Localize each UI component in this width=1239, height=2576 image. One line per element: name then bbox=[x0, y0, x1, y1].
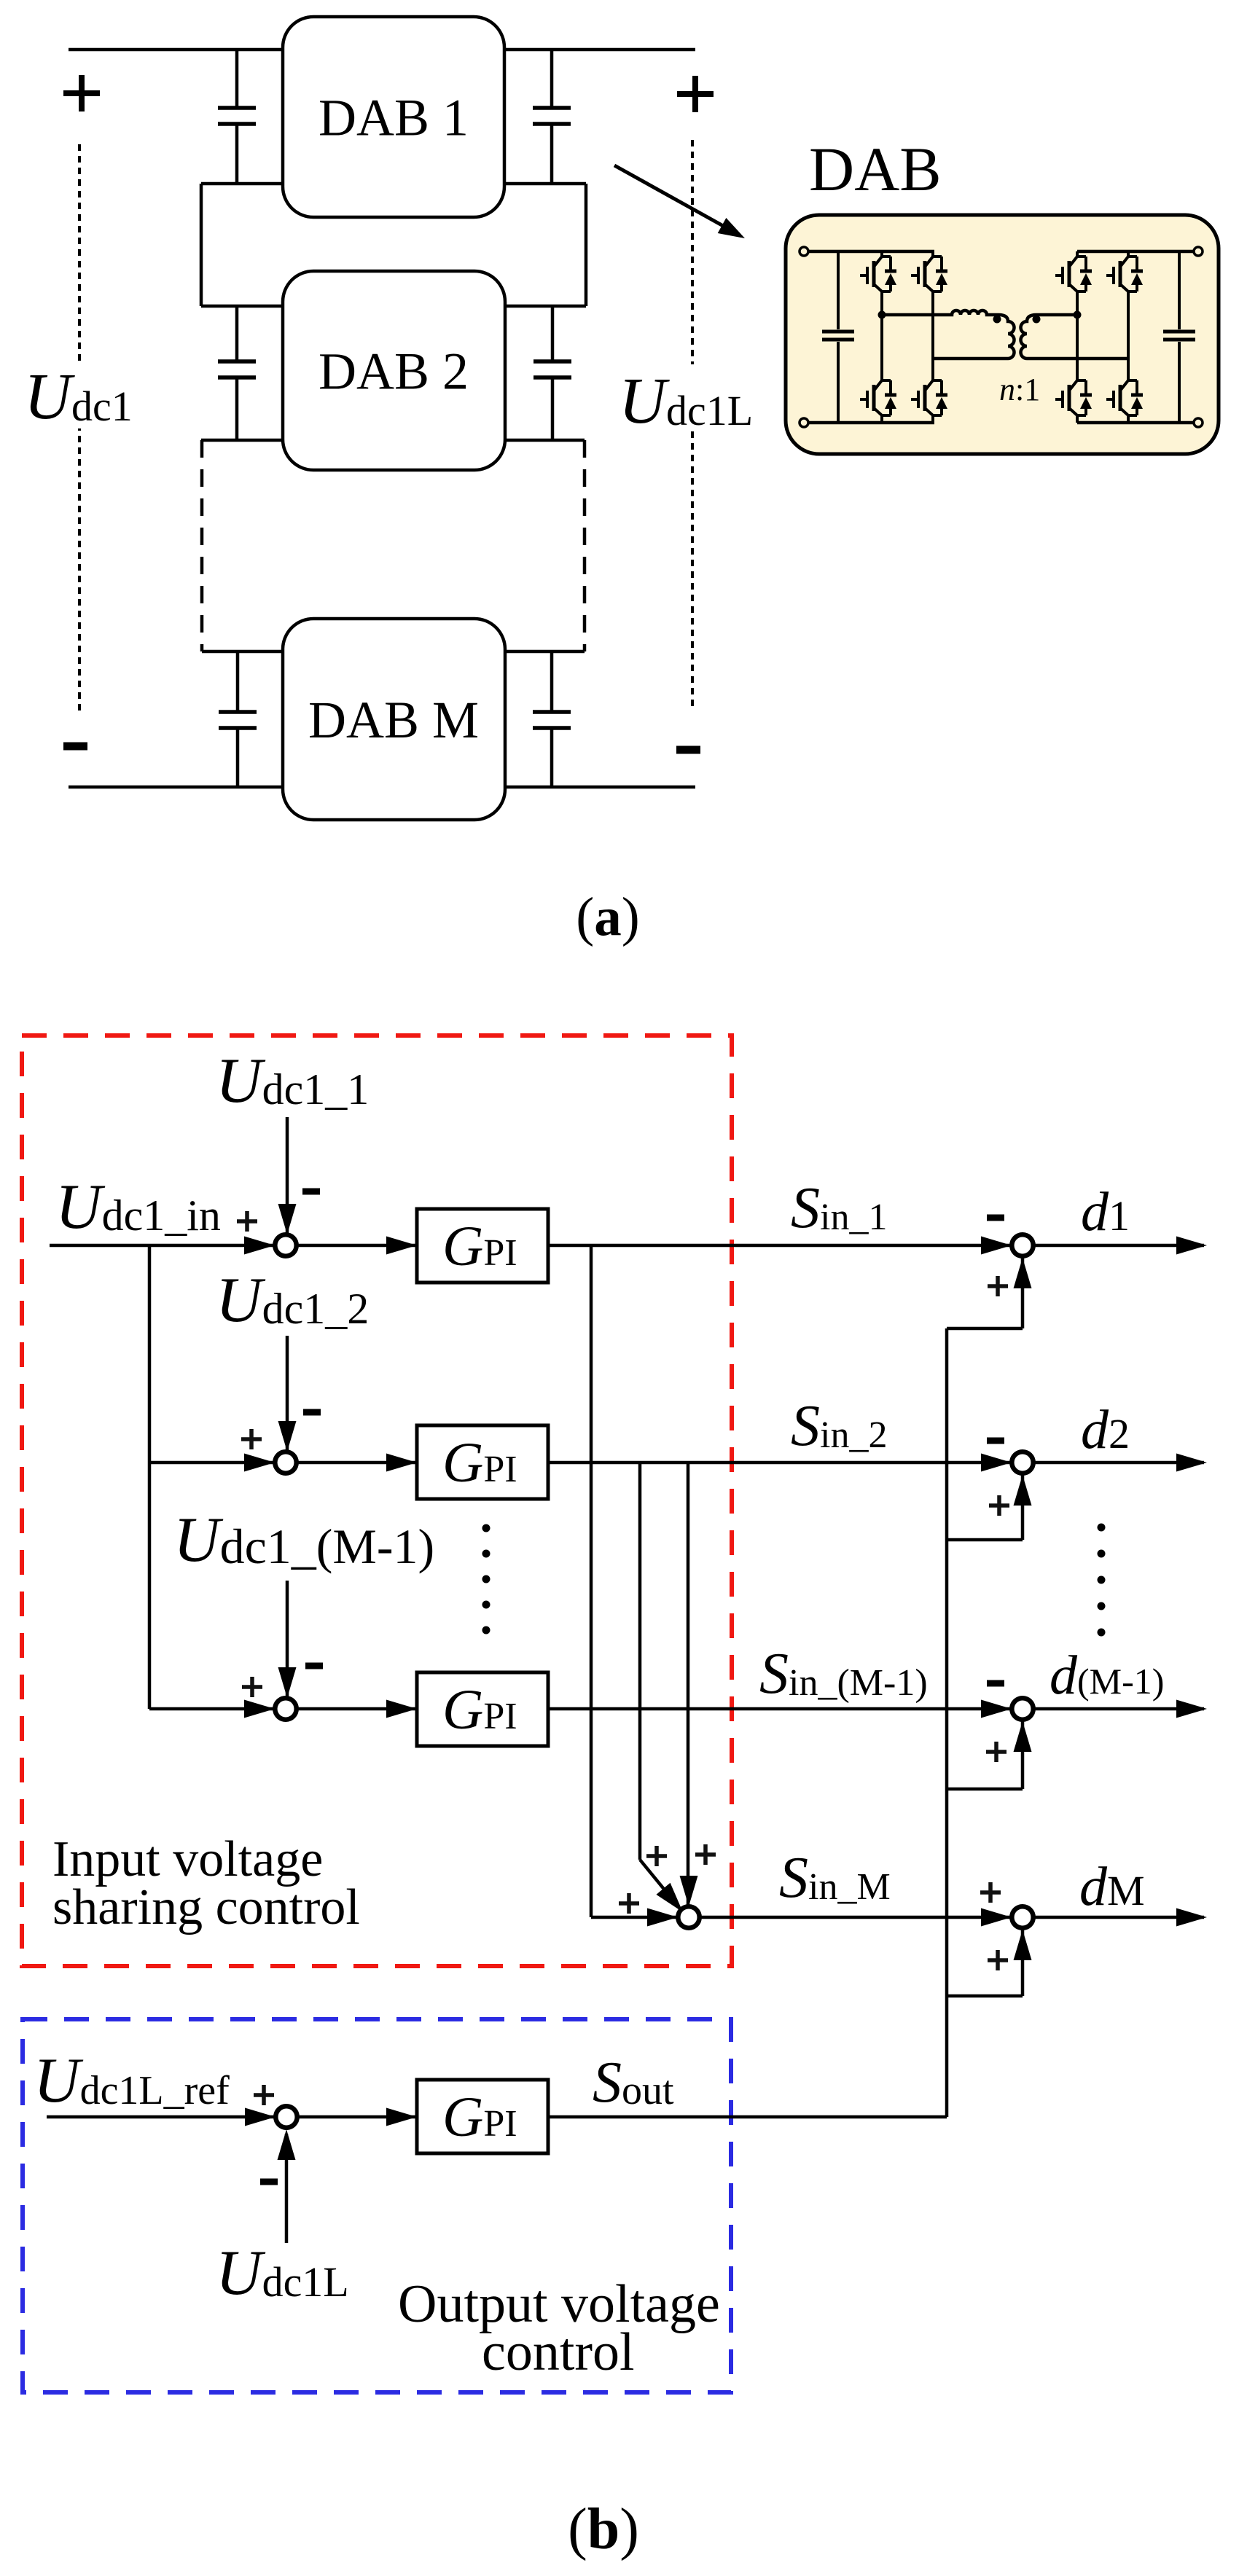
svg-text:control: control bbox=[482, 2322, 635, 2382]
svg-text:DAB 2: DAB 2 bbox=[318, 342, 469, 401]
svg-text:DAB: DAB bbox=[809, 134, 942, 204]
svg-text:(a): (a) bbox=[576, 887, 639, 947]
svg-text:(b): (b) bbox=[568, 2497, 639, 2561]
svg-text:DAB 1: DAB 1 bbox=[318, 89, 469, 147]
svg-text:n:1: n:1 bbox=[999, 372, 1040, 407]
svg-text:sharing control: sharing control bbox=[52, 1879, 360, 1935]
svg-text:DAB M: DAB M bbox=[308, 691, 479, 749]
